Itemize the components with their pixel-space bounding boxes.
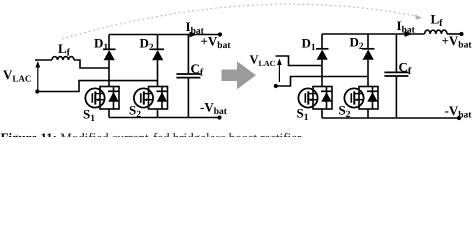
- wire: S1 source to rail: [108, 109, 110, 118]
- diode D2 (right): [362, 48, 375, 50]
- wire: leg A mid (right): [321, 60, 323, 87]
- capacitor Cf upper lead (right): [395, 34, 397, 72]
- svg-text:Cf: Cf: [399, 60, 412, 78]
- wire: source bottom to node B: [37, 81, 157, 92]
- inductor Lf coil (right): [425, 30, 447, 34]
- svg-text:VLAC: VLAC: [250, 53, 276, 68]
- capacitor Cf plates: [176, 73, 200, 75]
- wire: leg A upper: [108, 35, 110, 50]
- wire: source top to node A (right): [276, 56, 323, 66]
- svg-text:D2: D2: [350, 35, 364, 53]
- wire: top rail left part (right): [322, 33, 425, 35]
- wire: bottom rail (right): [322, 117, 459, 119]
- transistor S1 circle: [85, 88, 104, 107]
- diode D1 (right): [316, 48, 329, 50]
- svg-text:+Vbat: +Vbat: [201, 34, 232, 52]
- inductor Lf coil: [52, 57, 74, 60]
- wire: leg B mid: [157, 60, 159, 86]
- svg-text:S1: S1: [83, 107, 95, 125]
- transistor S2 circle (right): [344, 88, 363, 107]
- node +Vbat dot: [218, 32, 222, 36]
- wire: leg B upper (right): [367, 34, 369, 49]
- switch S1 body box: [100, 87, 119, 110]
- node -Vbat dot (right): [457, 116, 461, 120]
- wire: leg B mid (right): [367, 60, 369, 87]
- dashed move arc: [62, 4, 416, 39]
- wire: S2 source to rail: [157, 109, 159, 118]
- svg-text:Figure 11: Modified current-fe: Figure 11: Modified current-fed bridgele…: [1, 130, 304, 137]
- capacitor Cf plates (right): [384, 71, 408, 73]
- V_LAC arrow (right): [278, 62, 280, 82]
- transistor S1 circle (right): [298, 88, 317, 107]
- wire: leg A mid: [108, 60, 110, 86]
- I_bat arrowhead: [190, 32, 198, 38]
- capacitor Cf lower lead (right): [395, 76, 397, 118]
- diode D2: [152, 48, 165, 50]
- svg-text:-Vbat: -Vbat: [445, 103, 473, 121]
- svg-text:Lf: Lf: [431, 12, 444, 30]
- wire: leg A upper (right): [321, 34, 323, 49]
- svg-text:D2: D2: [140, 36, 154, 54]
- wire: source top terminal: [35, 59, 52, 61]
- V_LAC arrow: [37, 65, 39, 91]
- node +Vbat dot (right): [459, 32, 463, 36]
- switch S2 body box (right): [359, 87, 378, 110]
- transistor S2 gate glyph: [140, 93, 142, 103]
- svg-text:D1: D1: [94, 36, 108, 54]
- svg-text:Ibat: Ibat: [397, 18, 416, 36]
- switch S1 body diode (right): [326, 87, 328, 110]
- wire: coil to +Vbat (right): [447, 33, 462, 35]
- wire: coil to node A: [74, 60, 109, 68]
- switch S1 body box (right): [313, 87, 332, 110]
- svg-text:Cf: Cf: [191, 61, 204, 79]
- svg-text:-Vbat: -Vbat: [200, 100, 228, 118]
- wire: leg B upper: [157, 35, 159, 50]
- transistor S2 gate glyph (right): [350, 93, 352, 103]
- svg-text:Lf: Lf: [58, 41, 71, 59]
- switch S1 body diode: [113, 87, 115, 110]
- svg-text:D1: D1: [302, 36, 316, 54]
- switch S2 body diode (right): [372, 87, 374, 110]
- node: source bottom terminal dot: [35, 89, 39, 93]
- transistor S1 gate glyph (right): [304, 93, 306, 103]
- wire: bottom rail: [109, 117, 220, 119]
- svg-text:VLAC: VLAC: [3, 67, 31, 84]
- I_bat arrowhead (right): [405, 31, 413, 37]
- switch S2 body box: [149, 87, 168, 110]
- wire: source bottom to node B (right): [276, 77, 368, 87]
- capacitor Cf upper lead: [187, 35, 189, 75]
- node: source bottom dot (right): [274, 84, 278, 88]
- dashed arc arrowhead: [415, 14, 423, 20]
- transistor S2 circle: [134, 88, 153, 107]
- node -Vbat dot: [217, 115, 221, 119]
- wire: S2 source to rail (right): [367, 109, 369, 118]
- capacitor Cf lower lead: [187, 78, 189, 118]
- switch S2 body diode: [161, 87, 163, 110]
- transistor S1 gate glyph: [91, 93, 93, 103]
- wire: S1 source to rail (right): [321, 109, 323, 118]
- wire: top rail: [109, 34, 220, 36]
- svg-text:+Vbat: +Vbat: [442, 33, 473, 51]
- diode D1: [103, 48, 116, 50]
